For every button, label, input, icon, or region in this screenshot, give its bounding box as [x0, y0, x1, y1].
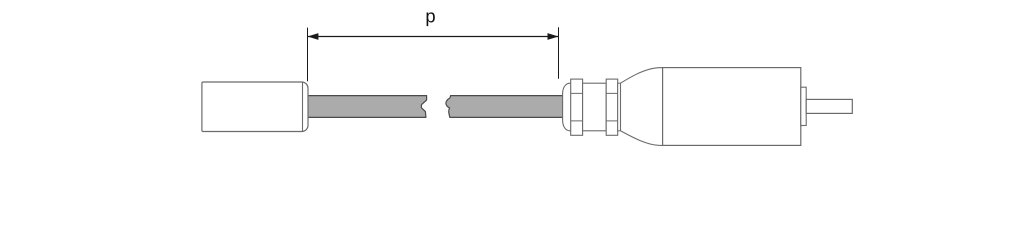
- hex nut 2: [606, 79, 618, 135]
- gland barrel between nuts: [583, 83, 607, 131]
- sensor body end-cap seam: [302, 82, 304, 131]
- arrowhead left: [308, 33, 319, 40]
- cable segment 2 (right, with break squiggle at left end): [446, 96, 563, 118]
- cable gland ferrule (rounded bushing): [563, 83, 571, 131]
- dimension label p: [427, 12, 435, 26]
- hex nut 1: [571, 79, 583, 135]
- sensor body (left probe housing): [202, 82, 308, 132]
- extension line left: [307, 28, 309, 82]
- arrowhead right: [548, 33, 559, 40]
- output pin / rear cable stub: [806, 99, 852, 113]
- cable segment 1 (left, with break squiggle at right end): [305, 96, 427, 118]
- dimension line p: [308, 36, 558, 38]
- conical transition into connector body: [621, 68, 663, 146]
- collar neck between nut 2 and cone: [618, 83, 621, 131]
- connector main body: [663, 68, 801, 146]
- extension line right: [558, 27, 560, 79]
- rear flange tab: [801, 87, 806, 125]
